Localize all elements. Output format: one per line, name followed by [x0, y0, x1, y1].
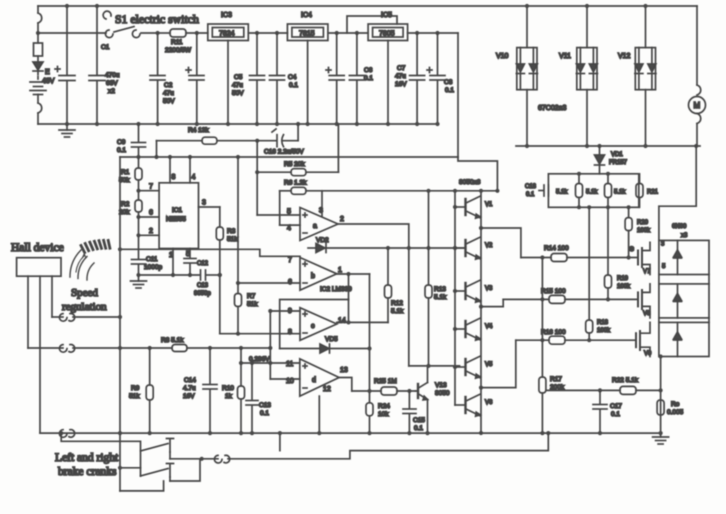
svg-text:IC3: IC3: [221, 12, 232, 19]
pin 1: [172, 249, 174, 276]
svg-text:5.1k: 5.1k: [614, 190, 626, 196]
svg-text:VD5: VD5: [325, 336, 338, 343]
svg-text:11: 11: [286, 361, 293, 368]
capacitor C6 0.1: [349, 33, 364, 124]
wire hall ground: [39, 276, 41, 433]
svg-text:R11: R11: [171, 39, 183, 46]
svg-text:V1: V1: [485, 202, 493, 208]
node pin5 feed: [256, 172, 258, 215]
wire bank base column: [454, 191, 456, 405]
svg-text:V11: V11: [559, 53, 571, 60]
wire bank collector column: [480, 191, 482, 433]
wire to comparator pin7: [120, 249, 300, 256]
wire short stub: [279, 433, 281, 451]
svg-text:9050p: 9050p: [194, 291, 211, 297]
svg-text:8050: 8050: [435, 390, 450, 397]
capacitor C2: [150, 33, 165, 124]
switch S1: [38, 11, 158, 37]
wire long left vertical: [119, 157, 121, 491]
node Vcc stub pin3: [321, 191, 323, 216]
MOSFET V8: [638, 284, 650, 318]
svg-text:C12: C12: [197, 261, 209, 267]
svg-text:R19: R19: [617, 276, 629, 282]
transistor V13 8050: [416, 366, 428, 433]
svg-text:C15: C15: [413, 417, 425, 424]
regulator IC4 7815: [287, 24, 328, 41]
svg-text:100k: 100k: [597, 328, 611, 334]
wire pin11: [241, 362, 300, 364]
svg-text:V4: V4: [485, 324, 493, 330]
svg-text:5.1k: 5.1k: [434, 294, 447, 301]
svg-text:0.1: 0.1: [117, 147, 126, 154]
op-amp comparator b: [300, 258, 337, 291]
svg-text:Hall device: Hall device: [11, 242, 64, 254]
svg-text:V13: V13: [435, 382, 447, 389]
svg-text:5: 5: [662, 264, 666, 270]
wire supply link to comparator rail: [458, 157, 497, 191]
svg-text:4: 4: [192, 174, 196, 181]
svg-text:1: 1: [338, 267, 342, 274]
svg-text:7805: 7805: [379, 31, 395, 38]
svg-text:3: 3: [661, 242, 665, 248]
resistor R15 100: [503, 295, 638, 303]
wire hall signal: [51, 276, 53, 317]
capacitor C11 1000p: [132, 235, 146, 275]
resistor R1 50k: [135, 157, 142, 191]
svg-text:R9: R9: [131, 385, 140, 392]
svg-text:R6 1.2k: R6 1.2k: [284, 180, 307, 187]
pin 2: [138, 217, 140, 235]
wire comparator c output: [337, 321, 388, 323]
svg-text:6: 6: [288, 279, 292, 286]
wire to brake switches: [61, 433, 140, 476]
pin 6: [136, 215, 140, 219]
switch brake 2: [141, 464, 174, 482]
svg-text:47u: 47u: [232, 82, 243, 89]
svg-text:Left and right: Left and right: [55, 452, 119, 464]
svg-text:C18: C18: [525, 184, 537, 190]
wire ground rail of top section: [38, 123, 438, 125]
diode box V8: [659, 284, 709, 318]
svg-text:100k: 100k: [637, 228, 651, 234]
svg-text:R22 5.1k: R22 5.1k: [612, 377, 639, 384]
svg-text:6: 6: [149, 210, 153, 217]
svg-text:c: c: [311, 323, 315, 330]
op-amp U1 timer IC1 NE555: [159, 183, 198, 249]
svg-text:VD1: VD1: [611, 152, 623, 158]
capacitor C13 9050p series: [200, 270, 202, 280]
resistor R18 100k: [586, 207, 593, 340]
wire brake 2 output: [170, 459, 200, 481]
svg-text:a: a: [313, 223, 317, 230]
wire box connectors: [708, 275, 710, 323]
wire source to shunt: [660, 357, 662, 434]
motor M: [689, 6, 706, 146]
wire comparator d output: [339, 378, 352, 392]
resistor R12 5.1k: [385, 248, 392, 322]
svg-text:R21: R21: [647, 190, 659, 196]
svg-text:6N60: 6N60: [672, 224, 687, 230]
resistor R16 100: [516, 336, 636, 344]
capacitor C8 0.1: [430, 33, 445, 124]
svg-text:M: M: [694, 101, 701, 110]
wire base of V5 and V13 collector: [409, 365, 460, 367]
svg-text:C14: C14: [184, 377, 196, 384]
capacitor C17 0.1: [593, 390, 607, 433]
svg-text:0.1: 0.1: [611, 411, 620, 418]
MOSFET V9: [636, 322, 650, 356]
svg-text:0.1: 0.1: [414, 425, 423, 432]
wire phase bus: [516, 145, 700, 147]
svg-text:C7: C7: [397, 65, 406, 72]
svg-text:2200/5W: 2200/5W: [165, 47, 192, 54]
Hall device box: [17, 258, 61, 277]
resistor R4 13k: [157, 137, 258, 157]
svg-text:R8 5.1k: R8 5.1k: [161, 337, 184, 344]
svg-text:47u: 47u: [395, 73, 406, 80]
svg-text:14: 14: [338, 318, 346, 325]
resistor R24 10k: [366, 403, 373, 433]
svg-text:Speed: Speed: [71, 287, 98, 299]
wire pin9: [270, 310, 300, 312]
regulator IC5 7805: [368, 24, 408, 41]
svg-text:0.1: 0.1: [445, 87, 454, 94]
resistor R19 100k: [605, 207, 612, 299]
svg-text:50V: 50V: [232, 90, 244, 97]
MOSFET pair V12: [635, 6, 656, 146]
resistor R11 2200/5W: [158, 29, 208, 37]
svg-text:2: 2: [340, 216, 344, 223]
svg-text:7815: 7815: [299, 31, 315, 38]
svg-text:R10: R10: [222, 385, 234, 392]
capacitor C18 0.1: [539, 185, 548, 196]
resistor R13 5.1k: [425, 191, 432, 366]
svg-text:C13: C13: [197, 283, 209, 289]
op-amp comparator c: [300, 308, 337, 341]
resistor 5.1k first: [576, 184, 583, 198]
pin 7: [136, 189, 140, 193]
resistor Ro 0.005 shunt: [657, 400, 664, 415]
pin 5 capacitor C12: [184, 249, 196, 276]
regulator IC3 7824: [208, 24, 249, 41]
svg-text:C2: C2: [164, 82, 173, 89]
capacitor C16 2.2u/50V: [257, 124, 298, 147]
capacitor C13b 0.1: [246, 363, 258, 433]
svg-text:10k: 10k: [378, 411, 389, 418]
svg-text:C4: C4: [288, 74, 297, 81]
svg-text:2: 2: [149, 228, 153, 235]
svg-text:7: 7: [288, 257, 292, 264]
svg-text:0.1: 0.1: [260, 410, 269, 417]
transistor V3: [455, 280, 481, 302]
svg-text:R7: R7: [247, 293, 256, 300]
svg-text:x3: x3: [681, 233, 688, 239]
svg-text:51k: 51k: [247, 301, 258, 308]
wire ground rail bottom: [40, 432, 661, 434]
svg-text:V12: V12: [618, 53, 631, 60]
svg-text:C5: C5: [234, 74, 243, 81]
node comparator d input column: [269, 311, 271, 379]
svg-text:1: 1: [169, 252, 173, 259]
resistor R25 1M: [352, 387, 416, 395]
svg-text:4: 4: [287, 225, 291, 232]
svg-text:C1: C1: [101, 44, 110, 51]
svg-text:V10: V10: [496, 53, 509, 60]
svg-text:1000p: 1000p: [144, 264, 162, 271]
node pin4 feed: [279, 191, 281, 225]
svg-text:R12: R12: [391, 300, 403, 307]
svg-text:R14 100: R14 100: [544, 245, 569, 252]
svg-text:V5: V5: [485, 362, 493, 368]
resistor R20 100k: [625, 207, 632, 257]
capacitor 47u between 7815 7805: [326, 33, 344, 124]
svg-text:R15 100: R15 100: [541, 288, 566, 295]
gate resistor network frame: [548, 174, 638, 208]
resistor R9 51k: [146, 348, 153, 433]
svg-text:0.005: 0.005: [667, 409, 684, 416]
svg-text:1k: 1k: [225, 393, 233, 400]
wire top border: [38, 5, 697, 7]
resistor R7 51k: [235, 283, 242, 334]
svg-text:S1 electric switch: S1 electric switch: [115, 12, 199, 26]
capacitor C1: [89, 6, 105, 124]
svg-text:R17: R17: [550, 376, 562, 383]
svg-text:C9: C9: [117, 139, 126, 146]
wire pin12 to ground rail: [318, 396, 320, 433]
wire comparator b output: [337, 273, 370, 275]
pin 8: [169, 157, 171, 183]
resistor R10 1k: [238, 348, 245, 433]
wire pin6: [237, 157, 239, 283]
wire: [328, 32, 368, 34]
svg-text:Ro: Ro: [671, 401, 680, 408]
svg-text:0.1: 0.1: [364, 75, 373, 82]
wire hall supply: [27, 276, 29, 348]
transistor V1: [455, 196, 481, 218]
wire pin8: [220, 333, 300, 335]
svg-text:R16 100: R16 100: [541, 329, 566, 336]
battery cells: [30, 81, 46, 83]
transistor V5: [455, 356, 481, 378]
svg-text:R24: R24: [378, 403, 390, 410]
svg-text:V6: V6: [485, 400, 493, 406]
svg-text:47u: 47u: [163, 90, 174, 97]
svg-text:4.7u: 4.7u: [183, 385, 196, 392]
svg-text:50V: 50V: [163, 98, 175, 105]
transistor V2: [455, 237, 481, 259]
wire feedback loop b: [348, 274, 350, 322]
svg-text:R2: R2: [121, 201, 130, 208]
resistor R8 5.1k: [172, 345, 187, 352]
svg-text:R13: R13: [434, 286, 446, 293]
svg-text:C16 2.2u/50V: C16 2.2u/50V: [264, 149, 304, 156]
resistor R22 5.1k: [546, 386, 661, 394]
capacitor C5 47u/50V: [250, 33, 265, 124]
svg-text:V3: V3: [485, 286, 493, 292]
wire: [408, 32, 458, 34]
diode box V7: [659, 240, 709, 274]
svg-text:5.1k: 5.1k: [391, 308, 404, 315]
svg-text:G: G: [629, 246, 634, 253]
wire IC5 input branch: [347, 16, 397, 33]
resistor R14 100: [521, 254, 638, 262]
capacitor C7 47u/16V: [410, 33, 432, 124]
pin 4: [189, 157, 191, 183]
MOSFET pair V11: [576, 6, 597, 146]
svg-text:51k: 51k: [227, 236, 238, 243]
ground: [59, 124, 75, 137]
svg-text:E: E: [45, 69, 50, 76]
svg-text:R4 13k: R4 13k: [188, 127, 209, 134]
wire phase feed to drains: [659, 146, 696, 240]
wire comparator a output: [338, 224, 409, 366]
svg-text:R3: R3: [227, 228, 236, 235]
svg-text:IC1: IC1: [172, 207, 183, 214]
resistor R3 51k: [216, 207, 223, 334]
svg-text:C13: C13: [259, 402, 271, 409]
capacitor C14 4.7u/16V: [203, 348, 217, 433]
ground: [653, 433, 669, 444]
transistor V4: [455, 318, 481, 340]
svg-text:50k: 50k: [119, 177, 130, 184]
svg-text:NE555: NE555: [166, 216, 186, 223]
MOSFET pair V10: [516, 6, 537, 146]
diode VD1 FR157: [595, 146, 605, 174]
svg-text:48V: 48V: [42, 78, 55, 85]
resistor R6 1.2k: [280, 187, 498, 194]
svg-text:5.1k: 5.1k: [586, 190, 598, 196]
resistor 5.1k second: [605, 184, 612, 198]
svg-text:7: 7: [149, 184, 153, 191]
svg-text:8: 8: [172, 174, 176, 181]
op-amp comparator a: [300, 208, 338, 241]
resistor R17 200k: [539, 258, 546, 434]
wire brake lower branch: [120, 467, 141, 469]
svg-text:5: 5: [186, 251, 190, 258]
wire speed line with R8: [28, 347, 63, 349]
wire pair outputs to gate lines: [481, 228, 521, 258]
svg-text:R18: R18: [597, 320, 609, 326]
svg-text:0.296V: 0.296V: [249, 356, 270, 363]
capacitor battery bulk: [55, 6, 75, 124]
svg-text:8: 8: [288, 329, 292, 336]
wire pin5: [257, 214, 300, 216]
svg-text:brake cranks: brake cranks: [58, 466, 117, 478]
svg-text:V8: V8: [643, 311, 651, 317]
resistor R5 20k: [257, 124, 338, 176]
svg-text:IC2 LM339: IC2 LM339: [320, 286, 352, 293]
capacitor C4 0.1: [270, 33, 285, 124]
svg-text:0.1: 0.1: [289, 82, 298, 89]
svg-text:16V: 16V: [395, 81, 407, 88]
svg-text:5.1k: 5.1k: [556, 190, 568, 196]
switch brake 1: [141, 439, 174, 459]
resistor R2 20k: [135, 191, 142, 217]
wire brake return: [120, 481, 164, 491]
resistor 5.1k third: [636, 184, 643, 198]
svg-text:10: 10: [286, 378, 294, 385]
svg-text:12: 12: [323, 386, 331, 393]
svg-text:63V: 63V: [106, 80, 118, 87]
MOSFET V7: [638, 242, 650, 274]
svg-text:67C02a3: 67C02a3: [538, 105, 567, 112]
svg-text:0.1: 0.1: [526, 192, 535, 198]
svg-text:R5 20k: R5 20k: [284, 161, 305, 168]
svg-text:R20: R20: [637, 220, 649, 226]
svg-text:V9: V9: [644, 351, 652, 357]
capacitor C9 0.1: [132, 124, 146, 157]
battery column: [30, 6, 46, 124]
svg-text:470u: 470u: [105, 72, 120, 79]
svg-text:C17: C17: [610, 403, 622, 410]
svg-text:C6: C6: [364, 67, 373, 74]
svg-text:9: 9: [288, 308, 292, 315]
svg-text:V2: V2: [485, 243, 493, 249]
svg-text:d: d: [312, 377, 316, 384]
svg-text:IC5: IC5: [381, 12, 392, 19]
svg-text:R1: R1: [121, 169, 130, 176]
capacitor C15 0.1: [403, 391, 416, 433]
svg-text:FR157: FR157: [609, 160, 628, 166]
speed regulation arc: [70, 240, 110, 280]
svg-text:5: 5: [287, 209, 291, 216]
wire: [248, 32, 287, 34]
svg-text:VD2: VD2: [316, 237, 329, 244]
fuse F: [34, 43, 43, 56]
diode battery: [33, 62, 43, 70]
svg-text:13: 13: [340, 367, 348, 374]
svg-text:51k: 51k: [129, 393, 140, 400]
wire pin4: [280, 224, 300, 226]
wire pin10: [270, 378, 300, 380]
svg-text:V7: V7: [643, 269, 651, 275]
svg-text:C11: C11: [146, 256, 158, 263]
wire 555 lower rail: [139, 274, 200, 276]
svg-text:20k: 20k: [119, 209, 130, 216]
wire supply rail 157: [120, 156, 458, 158]
svg-text:IC4: IC4: [301, 12, 312, 19]
capacitor electrolytic beside C2: [186, 33, 204, 124]
wire brake output: [170, 458, 218, 460]
svg-text:C8: C8: [444, 79, 453, 86]
svg-text:regulation: regulation: [62, 301, 107, 313]
regulator ground pins: [227, 41, 229, 125]
svg-text:16V: 16V: [183, 393, 195, 400]
svg-text:3: 3: [202, 200, 206, 207]
svg-text:x2: x2: [108, 88, 115, 95]
svg-text:7824: 7824: [219, 31, 235, 38]
ground: [131, 275, 147, 288]
svg-text:b: b: [311, 273, 315, 280]
op-amp comparator d: [300, 359, 339, 396]
transistor V6: [455, 394, 481, 416]
wire from 7805 output down: [457, 33, 459, 157]
pin 3: [199, 206, 220, 208]
svg-text:R25 1M: R25 1M: [374, 378, 397, 385]
svg-text:100k: 100k: [617, 284, 631, 290]
diode box V9: [659, 322, 709, 356]
svg-text:8050x6: 8050x6: [459, 179, 481, 186]
